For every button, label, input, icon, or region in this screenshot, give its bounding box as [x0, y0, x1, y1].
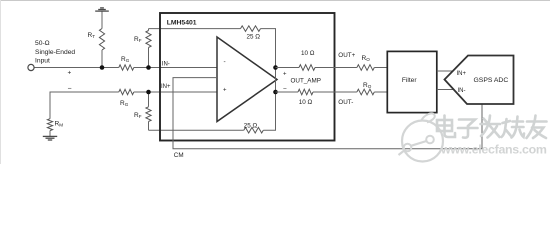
wire: top input rail [35, 67, 119, 69]
svg-text:25 Ω: 25 Ω [244, 122, 258, 129]
filter block [387, 51, 437, 112]
resistor RF (bottom feedback) [146, 107, 151, 122]
wire: top feedback run [149, 28, 241, 30]
resistor RF (top feedback) [146, 31, 151, 48]
node: junction RG/RF top [146, 65, 151, 70]
svg-text:IN-: IN- [162, 61, 170, 67]
svg-text:RG: RG [120, 100, 129, 107]
svg-text:RF: RF [134, 112, 142, 119]
svg-text:Single-Ended: Single-Ended [35, 49, 75, 56]
svg-text:OUT-: OUT- [338, 99, 353, 106]
wire: bottom output [276, 91, 299, 93]
svg-text:-: - [224, 59, 226, 66]
svg-text:Filter: Filter [402, 77, 417, 84]
svg-text:10 Ω: 10 Ω [299, 99, 313, 106]
svg-text:−: − [68, 86, 72, 93]
resistor RO (bottom) [357, 89, 374, 95]
page left border [0, 0, 2, 164]
svg-text:GSPS ADC: GSPS ADC [474, 77, 509, 84]
svg-text:10 Ω: 10 Ω [301, 50, 315, 57]
watermark logo ring [399, 113, 444, 161]
svg-text:RM: RM [55, 120, 64, 127]
svg-text:+: + [223, 88, 227, 94]
resistor RM [47, 119, 52, 131]
svg-text:IN+: IN+ [457, 71, 467, 77]
wire: top output [276, 67, 300, 69]
GSPS ADC block [445, 56, 514, 105]
resistor RT [99, 29, 104, 51]
node: junction input/RT [100, 65, 105, 70]
svg-text:LMH5401: LMH5401 [167, 19, 197, 26]
ground (below RM) [43, 136, 57, 140]
wire: output vertical bar [275, 68, 277, 93]
page top border [0, 0, 550, 2]
resistor RG (bottom) [119, 89, 134, 94]
svg-text:CM: CM [174, 152, 184, 159]
wire: filter to ADC bottom [437, 89, 455, 91]
resistor 10 ohm (top) [299, 65, 315, 71]
svg-text:www.elecfans.com: www.elecfans.com [440, 143, 547, 157]
input terminal [28, 64, 34, 70]
wire: bottom feedback run [149, 129, 244, 131]
svg-text:RF: RF [134, 36, 142, 43]
resistor RG (top) [119, 65, 134, 70]
ground (flipped, above RT) [95, 8, 109, 11]
svg-text:IN+: IN+ [161, 84, 171, 90]
svg-text:IN-: IN- [458, 88, 466, 94]
node: junction RG/RF bottom [146, 90, 151, 95]
svg-text:RO: RO [362, 55, 371, 62]
op-amp U1 triangle [217, 37, 277, 122]
svg-text:+: + [68, 70, 72, 77]
svg-text:RO: RO [363, 82, 372, 89]
resistor 25 ohm (bottom) [244, 127, 263, 133]
svg-text:−: − [283, 85, 287, 92]
svg-text:OUT+: OUT+ [338, 52, 355, 59]
svg-text:50-Ω: 50-Ω [35, 40, 50, 47]
svg-text:25 Ω: 25 Ω [247, 34, 261, 41]
wire: bottom rail from RM [50, 92, 119, 119]
resistor RO (top) [357, 65, 374, 71]
CM wire from amp to bottom [173, 78, 482, 149]
resistor 25 ohm (top) [241, 26, 261, 32]
svg-text:OUT_AMP: OUT_AMP [291, 77, 321, 84]
watermark chinese text (stylized strokes) [437, 116, 547, 139]
svg-text:+: + [283, 71, 287, 77]
svg-text:RG: RG [121, 56, 130, 63]
node: out+ junction [273, 65, 278, 70]
node: out- junction [273, 90, 278, 95]
svg-text:RT: RT [88, 32, 96, 39]
wire: filter to ADC top [437, 70, 454, 72]
LMH5401 block [160, 13, 335, 141]
svg-text:Input: Input [35, 58, 50, 65]
resistor 10 ohm (bottom) [298, 89, 313, 95]
